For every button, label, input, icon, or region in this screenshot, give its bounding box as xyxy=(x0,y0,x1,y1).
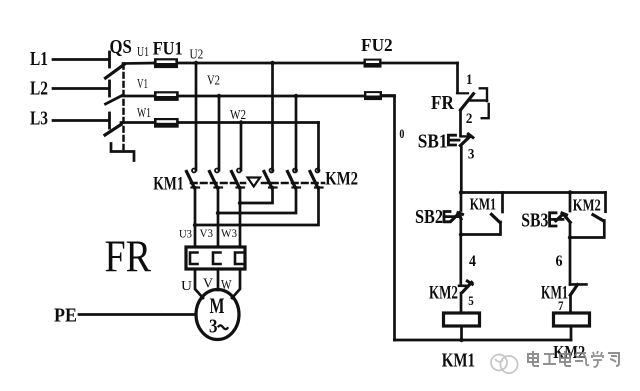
svg-text:QS: QS xyxy=(110,37,132,58)
svg-text:V: V xyxy=(203,277,213,292)
svg-text:U3: U3 xyxy=(179,227,192,241)
svg-text:U1: U1 xyxy=(137,44,149,59)
svg-text:KM2: KM2 xyxy=(325,170,358,190)
svg-text:FU2: FU2 xyxy=(361,35,393,55)
svg-text:V1: V1 xyxy=(137,76,148,91)
svg-text:L3: L3 xyxy=(30,109,48,130)
svg-text:KM1: KM1 xyxy=(470,195,496,214)
svg-text:7: 7 xyxy=(558,298,564,313)
svg-text:W: W xyxy=(221,278,232,293)
svg-text:W3: W3 xyxy=(221,226,237,240)
svg-text:5: 5 xyxy=(468,293,474,308)
svg-text:M: M xyxy=(210,293,225,318)
svg-text:PE: PE xyxy=(54,306,77,327)
svg-text:KM1: KM1 xyxy=(153,174,184,195)
svg-text:KM2: KM2 xyxy=(429,283,458,304)
svg-text:SB2: SB2 xyxy=(415,207,443,228)
svg-text:KM1: KM1 xyxy=(541,283,568,304)
svg-text:V2: V2 xyxy=(207,74,220,89)
svg-text:V3: V3 xyxy=(200,226,214,240)
svg-text:FR: FR xyxy=(431,93,455,114)
svg-text:3: 3 xyxy=(209,316,218,338)
svg-text:SB3: SB3 xyxy=(521,211,548,232)
svg-text:W1: W1 xyxy=(137,105,151,120)
svg-text:2: 2 xyxy=(466,111,473,127)
svg-text:4: 4 xyxy=(469,253,476,270)
svg-text:W2: W2 xyxy=(230,108,246,123)
svg-text:KM1: KM1 xyxy=(442,350,475,372)
svg-text:FR: FR xyxy=(105,232,152,282)
svg-text:KM2: KM2 xyxy=(573,196,601,215)
svg-text:1: 1 xyxy=(466,72,473,88)
svg-text:3: 3 xyxy=(468,147,475,163)
svg-text:FU1: FU1 xyxy=(153,39,183,60)
svg-text:6: 6 xyxy=(556,253,563,270)
svg-text:U2: U2 xyxy=(190,48,204,63)
svg-text:0: 0 xyxy=(399,127,404,141)
svg-text:SB1: SB1 xyxy=(418,132,448,153)
svg-text:L1: L1 xyxy=(30,49,48,70)
svg-text:U: U xyxy=(181,279,192,294)
svg-text:L2: L2 xyxy=(30,79,48,100)
